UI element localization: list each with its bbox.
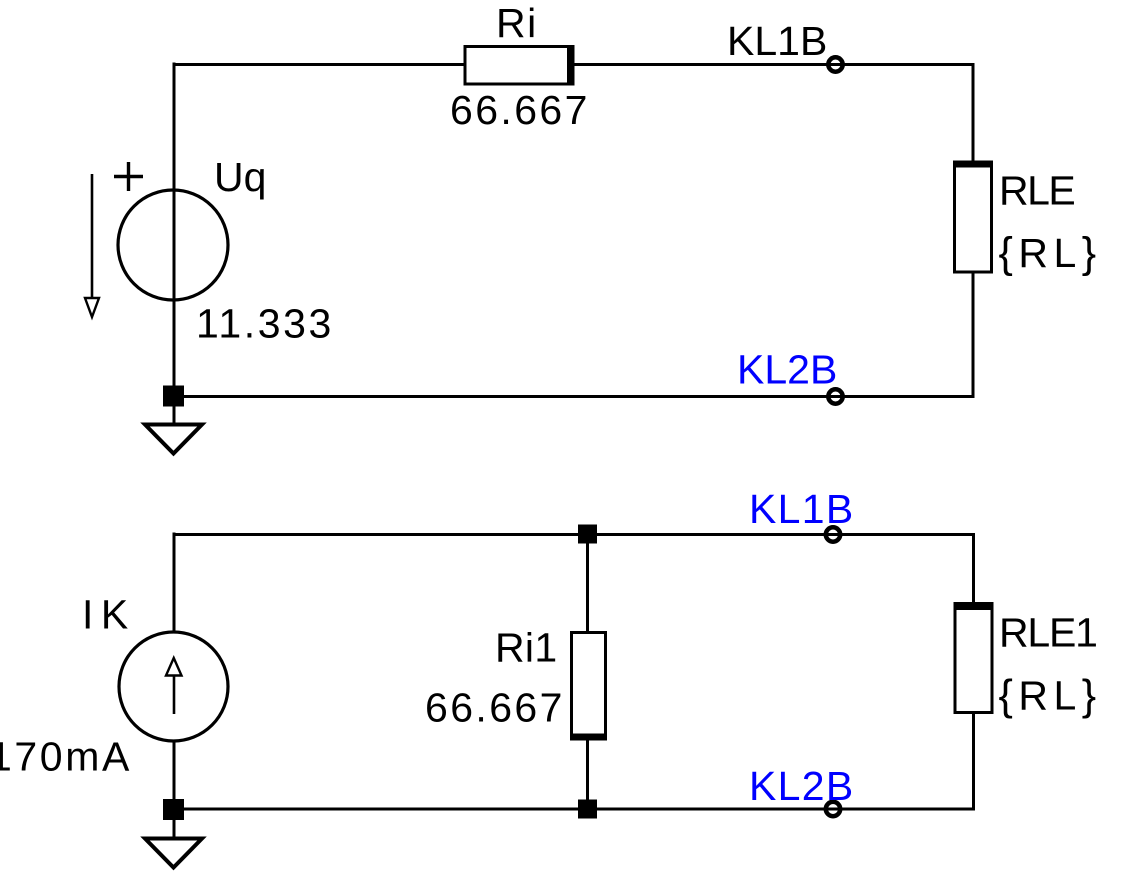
terminal KL2B circuit 1 xyxy=(828,389,842,403)
resistor RLE body xyxy=(955,162,992,272)
svg-text:Ri1: Ri1 xyxy=(495,625,557,671)
svg-text:RLE1: RLE1 xyxy=(999,610,1097,656)
junction square ground circuit 2 xyxy=(163,799,184,820)
svg-text:KL1B: KL1B xyxy=(727,18,827,64)
voltage source V1 Uq circle xyxy=(118,190,228,300)
wire left vertical upper circuit 2 xyxy=(173,533,176,633)
svg-text:170mA: 170mA xyxy=(0,734,132,780)
svg-text:RLE: RLE xyxy=(999,168,1074,214)
svg-text:IK: IK xyxy=(82,592,136,638)
resistor RLE thick top bar xyxy=(953,161,993,168)
wire right vertical upper circuit 1 xyxy=(972,63,975,162)
resistor Ri body xyxy=(465,47,573,85)
svg-text:Ri: Ri xyxy=(496,0,538,46)
current source I1 IK circle xyxy=(119,632,228,741)
terminal KL1B circuit 1 xyxy=(828,57,842,71)
svg-text:66.667: 66.667 xyxy=(425,685,565,731)
wire left vertical circuit 1 xyxy=(173,63,176,397)
wire right vertical lower circuit 2 xyxy=(972,714,975,811)
resistor Ri thick end bar xyxy=(567,45,575,86)
svg-text:66.667: 66.667 xyxy=(450,87,590,133)
resistor RLE1 thick top bar xyxy=(954,603,994,610)
current source arrow head xyxy=(166,658,182,676)
voltage polarity arrow head xyxy=(85,298,99,317)
ground symbol circuit 1 xyxy=(145,425,202,454)
wire Ri1 upper xyxy=(586,534,589,632)
wire bottom horizontal circuit 1 xyxy=(173,395,975,398)
current source arrow shaft xyxy=(173,673,176,714)
wire bottom horizontal circuit 2 xyxy=(173,808,976,811)
svg-text:{RL}: {RL} xyxy=(999,229,1102,277)
wire Ri1 lower xyxy=(586,740,589,809)
svg-text:11.333: 11.333 xyxy=(196,301,334,347)
wire top horizontal circuit 2 xyxy=(173,533,976,536)
resistor Ri1 body xyxy=(572,633,606,739)
ground symbol circuit 2 xyxy=(145,839,202,868)
junction square top (Ri1) xyxy=(578,525,597,544)
wire right vertical lower circuit 1 xyxy=(972,272,975,398)
ground stub circuit 2 xyxy=(173,819,176,838)
svg-text:KL1B: KL1B xyxy=(749,486,855,532)
junction square bottom (Ri1) xyxy=(578,800,597,819)
junction square ground circuit 1 xyxy=(163,386,184,407)
ground stub circuit 1 xyxy=(173,406,176,424)
wire Ri to corner circuit 1 xyxy=(573,63,975,66)
resistor RLE1 body xyxy=(955,604,992,713)
svg-text:Uq: Uq xyxy=(214,154,266,200)
svg-text:KL2B: KL2B xyxy=(749,763,855,809)
terminal KL2B circuit 2 xyxy=(826,802,840,816)
voltage source plus sign xyxy=(114,162,143,191)
svg-text:{RL}: {RL} xyxy=(999,672,1102,720)
voltage polarity arrow shaft xyxy=(91,174,94,303)
svg-text:KL2B: KL2B xyxy=(737,347,837,393)
terminal KL1B circuit 2 xyxy=(826,527,840,541)
wire current source to ground circuit 2 xyxy=(173,741,176,799)
resistor Ri1 thick bottom bar xyxy=(570,734,607,741)
wire top-left horizontal (node to Ri) circuit 1 xyxy=(173,63,467,66)
wire right vertical upper circuit 2 xyxy=(972,534,975,604)
